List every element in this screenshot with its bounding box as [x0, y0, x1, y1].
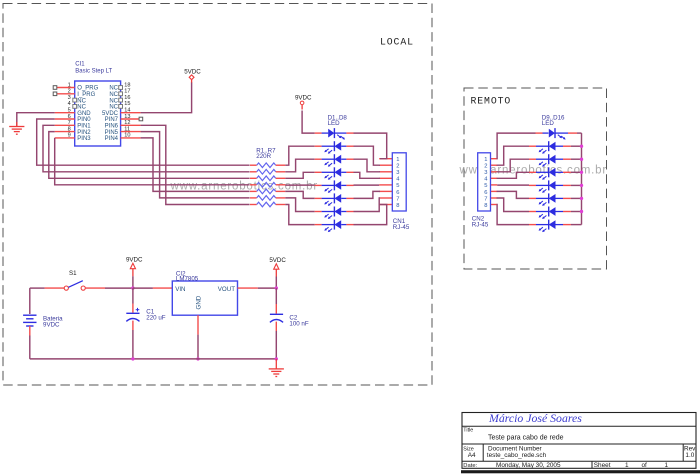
resistor R6 — [250, 196, 285, 201]
svg-text:I_PRG: I_PRG — [77, 92, 95, 98]
LED D6 — [315, 193, 354, 206]
svg-text:3: 3 — [396, 170, 399, 176]
junction remote bus row 7 — [580, 210, 583, 213]
wire CN2 pin 4 to D12 — [497, 172, 529, 178]
svg-text:2: 2 — [396, 164, 399, 170]
wire D4 to CN1 pin 4 — [354, 172, 381, 178]
svg-text:1: 1 — [665, 462, 669, 469]
LED D2 — [315, 141, 354, 154]
svg-text:8: 8 — [484, 203, 487, 209]
svg-text:O_PRG: O_PRG — [77, 86, 98, 92]
svg-text:CI1: CI1 — [75, 62, 85, 68]
wire R4 to D5 — [285, 184, 314, 186]
wire pin14 to 5VDC — [141, 83, 192, 113]
REMOTO section dashed frame — [464, 88, 607, 269]
svg-text:8: 8 — [68, 126, 71, 132]
wire VOUT to 5VDC junction — [258, 287, 277, 289]
svg-text:5VDC: 5VDC — [102, 111, 119, 117]
svg-text:5: 5 — [68, 108, 71, 114]
wire R2 to D3 — [285, 159, 314, 172]
svg-text:PIN6: PIN6 — [105, 124, 119, 130]
svg-text:18: 18 — [124, 82, 130, 88]
LED D7 — [315, 207, 354, 220]
LED D3 — [315, 154, 354, 167]
svg-text:1: 1 — [68, 82, 71, 88]
svg-text:4: 4 — [68, 101, 71, 107]
svg-text:100 nF: 100 nF — [289, 320, 308, 327]
svg-text:VIN: VIN — [175, 286, 185, 293]
LED D1 — [315, 128, 354, 140]
svg-text:Title: Title — [463, 428, 473, 434]
svg-text:NC: NC — [109, 86, 118, 92]
svg-text:1: 1 — [625, 462, 629, 469]
junction remote bus row 6 — [580, 197, 583, 200]
wire CN2 pin 3 to D11 — [497, 159, 529, 172]
svg-text:14: 14 — [124, 108, 130, 114]
wire CN2 pin 5 to D13 — [497, 184, 529, 186]
svg-text:GND: GND — [77, 111, 91, 117]
wire junction to VIN — [133, 287, 153, 289]
unconnected pin 13 end square — [139, 117, 143, 121]
wire R7 to D8 — [285, 205, 314, 225]
wire D3 to CN1 pin 3 — [354, 159, 381, 172]
svg-text:9VDC: 9VDC — [295, 95, 312, 102]
unconnected pin 2 end square — [53, 92, 57, 96]
wire D5 to CN1 pin 5 — [354, 184, 380, 186]
svg-text:2: 2 — [484, 164, 487, 170]
svg-text:NC: NC — [109, 98, 118, 104]
CI1 pin names — [77, 86, 118, 142]
svg-text:15: 15 — [124, 101, 130, 107]
LED D16 — [529, 220, 571, 233]
wire S1 to 9VDC junction — [105, 287, 133, 289]
svg-text:NC: NC — [109, 92, 118, 98]
svg-text:10: 10 — [124, 133, 130, 139]
wire R3 to D4 — [285, 172, 314, 178]
wire GND pin to ground — [17, 113, 55, 126]
LED D12 — [529, 167, 571, 180]
CI1 NC squares — [73, 86, 123, 109]
CI1 right pins — [121, 113, 141, 138]
resistor R4 — [250, 183, 285, 188]
wire 9VDC to D1 anode — [302, 111, 315, 134]
svg-text:PIN2: PIN2 — [77, 130, 91, 136]
junction 9VDC/top rail — [131, 286, 134, 289]
svg-text:12: 12 — [124, 120, 130, 126]
svg-text:6: 6 — [484, 190, 487, 196]
svg-text:1: 1 — [396, 157, 399, 163]
power port 9VDC (above D1) — [295, 95, 312, 110]
svg-text:PIN5: PIN5 — [105, 130, 119, 136]
svg-text:220 uF: 220 uF — [146, 315, 165, 322]
svg-text:GND: GND — [196, 295, 203, 309]
svg-text:RJ-45: RJ-45 — [393, 224, 410, 231]
junction C2/bottom rail — [275, 357, 278, 360]
resistor R3 — [250, 176, 285, 181]
svg-text:2: 2 — [68, 89, 71, 95]
ground symbol (chip) — [9, 122, 24, 134]
svg-text:5VDC: 5VDC — [269, 257, 286, 264]
svg-text:LED: LED — [542, 120, 555, 127]
svg-text:S1: S1 — [69, 270, 77, 277]
resistor R7 — [250, 202, 285, 207]
LED D10 — [529, 141, 571, 154]
junction 5VDC/C2 — [275, 286, 278, 289]
wire R1 to D2 — [285, 146, 314, 165]
svg-text:Teste para cabo de rede: Teste para cabo de rede — [488, 435, 564, 442]
LED D4 — [315, 167, 354, 180]
svg-text:7: 7 — [396, 196, 399, 202]
bottom rail wire — [30, 358, 276, 360]
svg-text:7: 7 — [484, 196, 487, 202]
wire CN2 pin 8 to D16 — [497, 205, 529, 225]
connector CN2 pins — [491, 159, 498, 205]
capacitor C1 — [126, 288, 139, 359]
svg-text:17: 17 — [124, 89, 130, 95]
wire battery to S1 — [30, 287, 45, 289]
LED D8 — [315, 220, 354, 233]
junction remote bus row 3 — [580, 158, 583, 161]
svg-text:NC: NC — [109, 105, 118, 111]
svg-text:8: 8 — [396, 203, 399, 209]
regulator CI2 LM7805 — [153, 281, 258, 335]
svg-text:VOUT: VOUT — [218, 286, 235, 293]
svg-text:9VDC: 9VDC — [126, 256, 143, 263]
wire PIN5 to R6 — [141, 132, 250, 198]
wire PIN6 to R7 — [141, 125, 250, 204]
LOCAL section dashed frame — [3, 4, 432, 386]
svg-text:of: of — [642, 462, 648, 469]
connector CN2 body — [478, 153, 491, 211]
svg-text:6: 6 — [396, 190, 399, 196]
resistor R2 — [250, 169, 285, 174]
wire CN2 pin 2 to D10 — [497, 146, 529, 165]
svg-text:Basic Step LT: Basic Step LT — [75, 68, 112, 74]
wire D6 to CN1 pin 6 — [354, 191, 381, 198]
svg-text:6: 6 — [68, 114, 71, 120]
op-amp U1 : chip CI1 Basic Step LT — [75, 81, 121, 146]
svg-text:9VDC: 9VDC — [43, 321, 60, 328]
LED D13 — [529, 180, 571, 193]
svg-text:PIN7: PIN7 — [105, 117, 119, 123]
LED D14 — [529, 193, 571, 206]
ground symbol (supply) — [269, 359, 284, 377]
unconnected pin 1 end square — [53, 86, 57, 90]
capacitor C2 — [270, 288, 283, 359]
wire R6 to D7 — [285, 198, 314, 212]
title block frame — [462, 413, 696, 469]
svg-text:LOCAL: LOCAL — [380, 36, 414, 47]
CN2 pin numbers — [484, 157, 488, 209]
svg-text:Márcio José Soares: Márcio José Soares — [488, 411, 582, 425]
junction C1/bottom rail — [131, 357, 134, 360]
wire PIN3 to R4 — [55, 138, 250, 185]
LED D5 — [315, 180, 354, 193]
svg-text:PIN0: PIN0 — [77, 117, 91, 123]
svg-text:teste_cabo_rede.sch: teste_cabo_rede.sch — [487, 452, 547, 459]
power port 5VDC (above CI1) — [184, 68, 201, 83]
power port 9VDC (supply) — [126, 256, 143, 288]
junction remote bus row 2 — [580, 145, 583, 148]
svg-text:PIN3: PIN3 — [77, 136, 91, 142]
wire GND pin down — [197, 335, 199, 359]
wire R5 to D6 — [285, 191, 314, 198]
wire PIN1 to R2 — [43, 125, 250, 172]
connector CN1 body — [392, 153, 406, 211]
svg-text:13: 13 — [124, 114, 130, 120]
svg-text:Date:: Date: — [463, 463, 477, 469]
svg-text:NC: NC — [77, 98, 86, 104]
wire PIN2 to R3 — [49, 132, 250, 179]
svg-text:220R: 220R — [256, 153, 271, 160]
battery Bateria 9VDC — [23, 288, 36, 359]
power port 5VDC (supply) — [269, 257, 286, 288]
svg-text:A4: A4 — [468, 452, 476, 459]
resistor R5 — [250, 189, 285, 194]
sheet bottom border bar — [461, 470, 700, 473]
svg-text:5: 5 — [396, 183, 399, 189]
LED D9 — [536, 128, 578, 140]
wire D8 to CN1 pin 8 — [354, 205, 387, 225]
CN1 pin numbers — [396, 157, 400, 209]
svg-text:PIN1: PIN1 — [77, 124, 91, 130]
svg-text:NC: NC — [77, 105, 86, 111]
svg-text:9: 9 — [68, 133, 71, 139]
svg-text:7: 7 — [68, 120, 71, 126]
svg-text:5VDC: 5VDC — [184, 68, 201, 75]
svg-text:Sheet: Sheet — [594, 462, 611, 469]
junction GND/bottom rail — [196, 357, 199, 360]
svg-text:www.arnerobotics.com.br: www.arnerobotics.com.br — [170, 180, 319, 192]
svg-text:11: 11 — [124, 126, 130, 132]
wire PIN4 to R5 — [141, 138, 250, 192]
switch S1 — [45, 281, 105, 291]
svg-text:3: 3 — [484, 170, 487, 176]
CI1 left pins — [55, 88, 75, 138]
junction remote bus row 4 — [580, 171, 583, 174]
svg-text:16: 16 — [124, 95, 130, 101]
svg-text:Monday, May 30, 2005: Monday, May 30, 2005 — [496, 462, 561, 469]
wire D7 to CN1 pin 7 — [354, 198, 381, 212]
resistor R1 — [250, 163, 285, 168]
svg-text:LED: LED — [328, 120, 341, 127]
wire D2 to CN1 pin 2 — [354, 146, 381, 165]
svg-text:RJ-45: RJ-45 — [472, 221, 489, 228]
svg-text:3: 3 — [68, 95, 71, 101]
wire CN2 pin 6 to D14 — [497, 191, 529, 198]
svg-text:1: 1 — [484, 157, 487, 163]
wire CN2 pin 7 to D15 — [497, 198, 529, 212]
junction remote bus row 5 — [580, 184, 583, 187]
wire D1 to CN1 pin 1 — [354, 133, 387, 159]
LED D11 — [529, 154, 571, 167]
svg-text:REMOTO: REMOTO — [471, 95, 512, 106]
wire remote cathode bus — [571, 133, 582, 225]
LED D15 — [529, 207, 571, 220]
svg-text:1.0: 1.0 — [685, 452, 694, 459]
wire CN2 pin 1 to D9 — [497, 133, 536, 159]
CI1 pin numbers — [68, 82, 131, 138]
svg-text:LM7805: LM7805 — [176, 276, 199, 283]
svg-text:PIN4: PIN4 — [105, 136, 119, 142]
connector CN1 pins — [379, 159, 392, 205]
svg-text:5: 5 — [484, 183, 487, 189]
wire PIN0 to R1 — [37, 119, 250, 165]
